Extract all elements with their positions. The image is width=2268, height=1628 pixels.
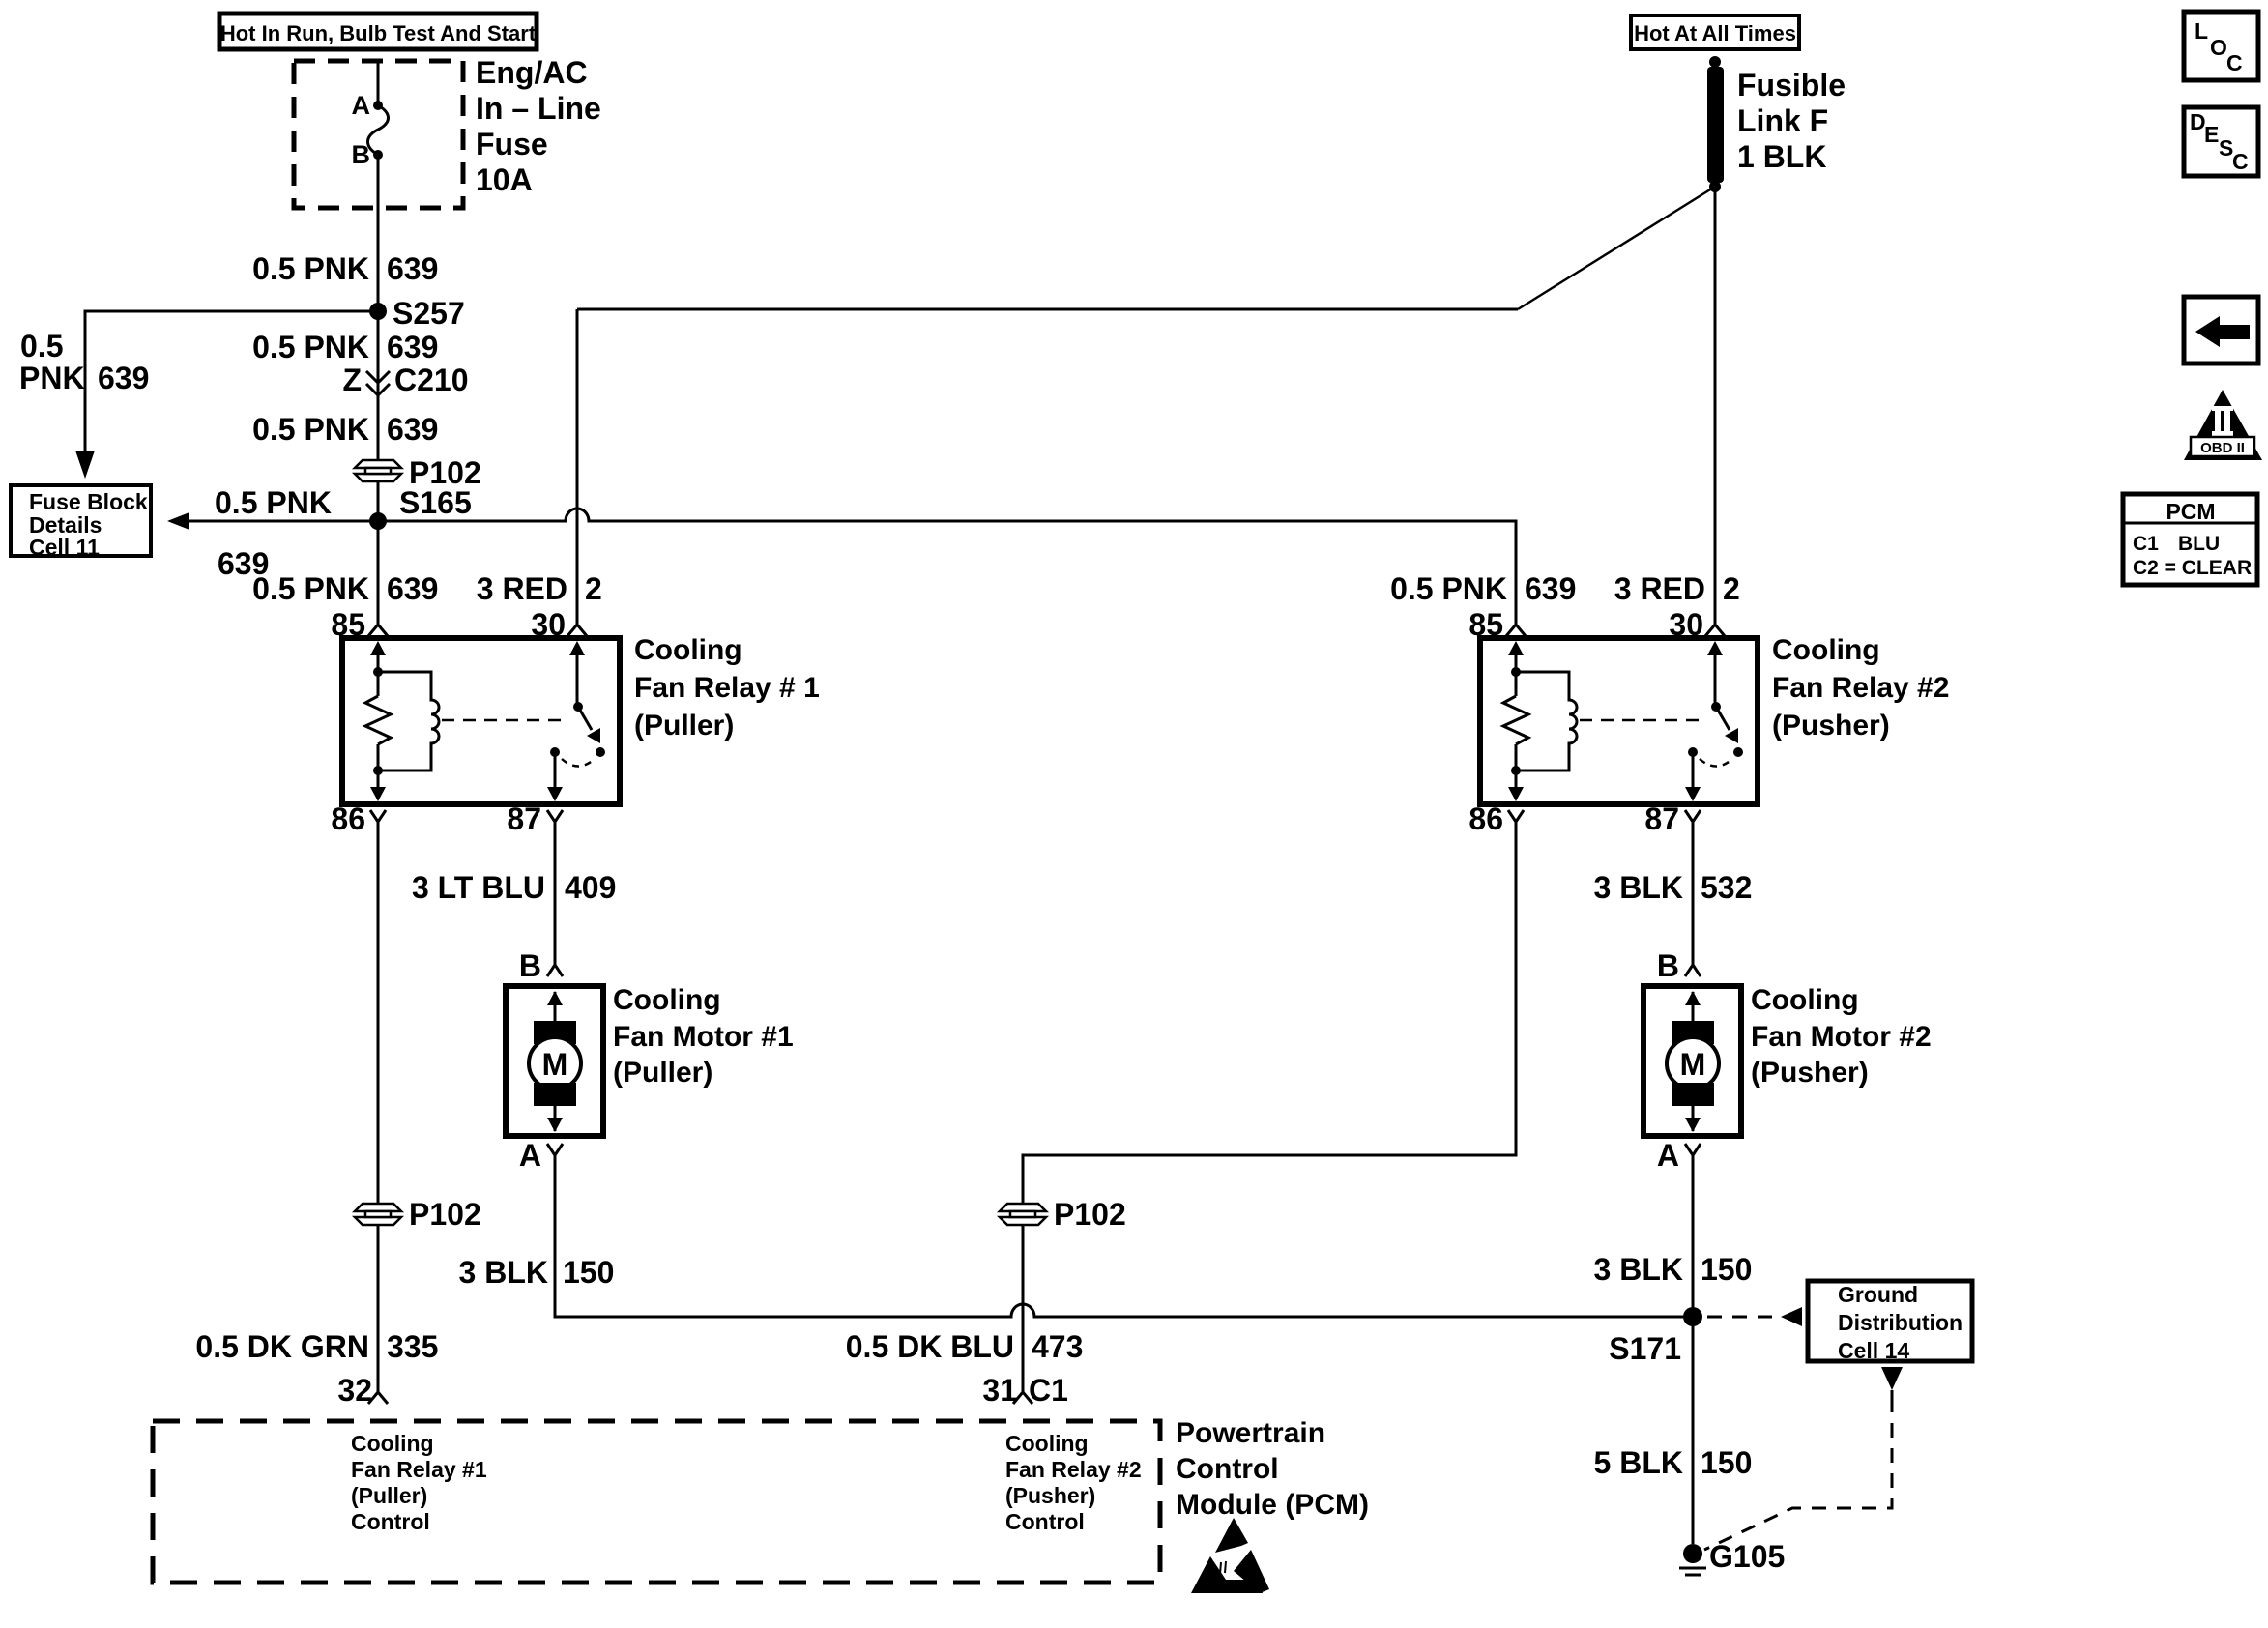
relay K1 switch blade <box>578 707 605 757</box>
svg-text:3 RED: 3 RED <box>1614 571 1705 606</box>
svg-text:B: B <box>519 948 541 983</box>
motor M1 Cooling Fan Motor #1 box <box>506 986 603 1136</box>
PCM pin 32 function label: Cooling Fan Relay #1 (Puller) Control <box>351 1431 487 1534</box>
arrow down to Fuse Block Details <box>75 451 95 479</box>
relay2 pin 30 terminal <box>1669 607 1725 642</box>
svg-text:Distribution: Distribution <box>1838 1310 1963 1335</box>
svg-text:10A: 10A <box>476 162 533 197</box>
svg-text:Control: Control <box>1176 1453 1279 1485</box>
relay K2 switch contact to pin 87 <box>1685 747 1701 801</box>
wire 3 BLK 532 from relay2 pin 87 to motor2 pin B <box>1692 822 1695 965</box>
wire diagonal from fusible link to red feed branch <box>1518 187 1715 309</box>
wire 0.5 DK GRN 335 from relay1 pin 86 to PCM pin 32 <box>377 822 380 1392</box>
fuse name label: Eng/AC In-Line Fuse 10A <box>476 55 601 197</box>
wire from S165 right toward relay 2 pin 85 with hop over red wire <box>378 509 1516 625</box>
legend LOC box <box>2184 12 2258 80</box>
svg-text:Cooling: Cooling <box>1005 1431 1089 1456</box>
fuse F1 dashed outline box <box>294 61 463 208</box>
relay K2 actuation dashed link <box>1580 719 1706 722</box>
svg-text:Ground: Ground <box>1838 1282 1918 1307</box>
svg-text:Fan Motor #2: Fan Motor #2 <box>1751 1021 1932 1053</box>
svg-text:87: 87 <box>507 801 541 836</box>
svg-text:Module (PCM): Module (PCM) <box>1176 1489 1369 1521</box>
motor1 pin B terminal <box>519 948 563 983</box>
power label box: Hot In Run, Bulb Test And Start <box>219 14 537 49</box>
relay1 pin 86 terminal <box>331 801 386 836</box>
svg-text:BLU: BLU <box>2178 533 2220 555</box>
svg-text:Cell 11: Cell 11 <box>29 535 100 560</box>
svg-text:87: 87 <box>1644 801 1679 836</box>
svg-text:E: E <box>2204 122 2219 147</box>
svg-text:5 BLK: 5 BLK <box>1594 1445 1683 1480</box>
motor M1 name label: Cooling Fan Motor #1 (Puller) <box>613 984 794 1089</box>
wire label 0.5 DK GRN 335 <box>195 1329 438 1364</box>
svg-text:3 BLK: 3 BLK <box>1594 1252 1683 1287</box>
motor M1 symbol <box>529 991 581 1132</box>
svg-text:M: M <box>1680 1047 1706 1082</box>
relay K2 resistor <box>1503 696 1528 744</box>
wire label 3 LT BLU 409 <box>412 870 616 905</box>
splice S171 <box>1609 1307 1702 1366</box>
fuse terminal B <box>352 140 384 169</box>
splice S257 <box>369 296 465 331</box>
svg-text:Cooling: Cooling <box>1772 634 1880 666</box>
svg-text:86: 86 <box>331 801 365 836</box>
relay2 pin 86 terminal <box>1468 801 1524 836</box>
svg-text:0.5 DK GRN: 0.5 DK GRN <box>195 1329 369 1364</box>
reference box: Fuse Block Details Cell 11 <box>11 485 151 560</box>
wire 5 BLK 150 from S171 to G105 <box>1692 1317 1695 1544</box>
wire 0.5 PNK 639 from fuse B to S257 <box>377 155 380 311</box>
grommet P102 (dk grn wire) <box>355 1197 481 1232</box>
wire label 3 BLK 150 (left) <box>459 1255 615 1290</box>
svg-text:Fuse: Fuse <box>476 127 548 161</box>
svg-text:B: B <box>1657 948 1679 983</box>
svg-text:Fusible: Fusible <box>1737 68 1846 102</box>
relay K1 actuation dashed link <box>442 719 568 722</box>
svg-text:B: B <box>352 140 371 169</box>
relay1 pin 30 terminal <box>531 607 587 642</box>
svg-text:Cooling: Cooling <box>1751 984 1859 1016</box>
wire 3 RED feed branch horizontal <box>577 308 1518 311</box>
svg-text:150: 150 <box>1701 1445 1752 1480</box>
svg-text:0.5: 0.5 <box>20 329 63 363</box>
svg-text:(Puller): (Puller) <box>613 1057 712 1089</box>
fusible link F terminal bottom <box>1709 181 1721 192</box>
svg-text:Hot In Run, Bulb Test And Star: Hot In Run, Bulb Test And Start <box>220 21 537 45</box>
svg-text:3 BLK: 3 BLK <box>1594 870 1683 905</box>
grommet P102 (pink wire) <box>355 455 481 490</box>
svg-text:0.5 PNK: 0.5 PNK <box>252 330 369 364</box>
relay K2 switch travel dashed arc <box>1700 759 1732 767</box>
svg-text:Fan Relay #2: Fan Relay #2 <box>1772 672 1949 704</box>
svg-text:G105: G105 <box>1709 1539 1785 1574</box>
wire label 0.5 PNK 639 (above S257) <box>252 251 438 286</box>
svg-text:31: 31 <box>982 1373 1017 1408</box>
svg-text:A: A <box>1657 1138 1679 1173</box>
svg-text:532: 532 <box>1701 870 1752 905</box>
svg-text:86: 86 <box>1468 801 1503 836</box>
relay1 pin 87 terminal <box>507 801 563 836</box>
svg-text:(Puller): (Puller) <box>634 710 734 741</box>
svg-text:Z: Z <box>342 363 362 397</box>
fusible link F terminal top <box>1709 56 1721 68</box>
svg-text:639: 639 <box>387 251 438 286</box>
svg-text:P102: P102 <box>1054 1197 1126 1232</box>
wire 3 LT BLU 409 from relay1 pin 87 to motor1 pin B <box>554 822 557 965</box>
svg-text:(Pusher): (Pusher) <box>1005 1483 1095 1508</box>
svg-text:C210: C210 <box>394 363 469 397</box>
relay K2 name label: Cooling Fan Relay #2 (Pusher) <box>1772 634 1949 741</box>
svg-text:PCM: PCM <box>2166 499 2215 524</box>
motor2 pin A terminal <box>1657 1138 1701 1173</box>
power label box: Hot At All Times <box>1631 15 1799 49</box>
wire 3 RED 2 from fusible link branch to relay1 pin 30 <box>576 309 579 625</box>
wire 3 BLK 150 from motor1 pin A to S171 with hop over dk blu wire <box>555 1155 1693 1317</box>
relay K1 coil <box>378 672 439 770</box>
legend back-arrow box <box>2184 297 2258 363</box>
svg-text:C: C <box>2226 50 2243 75</box>
svg-text:639: 639 <box>98 361 149 395</box>
svg-text:0.5 PNK: 0.5 PNK <box>252 571 369 606</box>
svg-text:P102: P102 <box>409 1197 481 1232</box>
svg-text:Eng/AC: Eng/AC <box>476 55 588 90</box>
svg-text:C1: C1 <box>2133 533 2159 555</box>
svg-text:S171: S171 <box>1609 1331 1681 1366</box>
wire label 0.5 PNK 639 (S165 branch) <box>215 485 332 581</box>
PCM pin 31 function label: Cooling Fan Relay #2 (Pusher) Control <box>1005 1431 1142 1534</box>
wire from S165 left to Fuse Block Details arrow <box>188 520 378 523</box>
svg-text:Cooling: Cooling <box>351 1431 434 1456</box>
PCM pin 32 terminal <box>337 1373 388 1408</box>
svg-text:Link F: Link F <box>1737 103 1828 138</box>
wire label 3 BLK 150 (right) <box>1594 1252 1753 1287</box>
wire label 5 BLK 150 <box>1594 1445 1753 1480</box>
legend DESC box <box>2184 107 2258 176</box>
svg-text:2: 2 <box>1723 571 1740 606</box>
reference box: Ground Distribution Cell 14 <box>1808 1281 1972 1363</box>
fuse element Eng/AC In-Line Fuse 10A <box>368 105 389 155</box>
wire branch from S257 to fuse block arrow <box>85 311 378 452</box>
svg-text:150: 150 <box>1701 1252 1752 1287</box>
grommet P102 (dk blu wire) <box>1000 1197 1126 1232</box>
svg-text:335: 335 <box>387 1329 438 1364</box>
svg-text:Hot At All Times: Hot At All Times <box>1634 21 1796 45</box>
svg-text:0.5 PNK: 0.5 PNK <box>1390 571 1507 606</box>
svg-text:O: O <box>2210 35 2227 60</box>
svg-text:L: L <box>2195 18 2208 44</box>
svg-text:0.5 PNK: 0.5 PNK <box>252 251 369 286</box>
wire label 0.5 PNK 639 (above relay1 pin 85) <box>252 571 438 606</box>
legend PCM connector table <box>2123 494 2257 585</box>
svg-text:0.5 PNK: 0.5 PNK <box>252 412 369 447</box>
relay1 pin 85 terminal <box>331 607 388 642</box>
wire label 3 RED 2 (relay1 pin 30) <box>477 571 602 606</box>
svg-text:C1: C1 <box>1029 1373 1068 1408</box>
svg-text:473: 473 <box>1032 1329 1083 1364</box>
svg-text:(Pusher): (Pusher) <box>1751 1057 1869 1089</box>
PCM name label: Powertrain Control Module (PCM) <box>1176 1417 1369 1521</box>
ESD sensitive device symbol <box>1191 1518 1269 1593</box>
wire 3 RED 2 from fusible link to relay2 pin 30 <box>1714 187 1717 625</box>
svg-text:Control: Control <box>1005 1509 1085 1534</box>
svg-text:Fuse Block: Fuse Block <box>29 489 148 514</box>
svg-text:639: 639 <box>1525 571 1576 606</box>
svg-text:0.5 PNK: 0.5 PNK <box>215 485 332 520</box>
svg-text:S257: S257 <box>393 296 465 331</box>
relay K1 switch common from pin 30 <box>569 641 585 712</box>
wire label 0.5 PNK 639 (above relay2 pin 85) <box>1390 571 1576 606</box>
relay K1 name label: Cooling Fan Relay # 1 (Puller) <box>634 634 820 741</box>
relay K1 Cooling Fan Relay #1 box <box>342 638 620 804</box>
relay K2 coil-side vertical with arrows <box>1508 641 1524 801</box>
relay K1 resistor <box>365 696 391 744</box>
svg-text:3 RED: 3 RED <box>477 571 567 606</box>
wire label 0.5 PNK 639 (between S257 and C210) <box>252 330 438 364</box>
relay2 pin 85 terminal <box>1468 607 1526 642</box>
svg-text:C: C <box>2232 149 2249 174</box>
svg-text:Fan Motor #1: Fan Motor #1 <box>613 1021 794 1053</box>
legend OBD II triangle <box>2184 390 2262 460</box>
wire 0.5 DK BLU 473 from relay2 pin 86 to PCM pin 31 <box>1023 822 1516 1392</box>
svg-text:639: 639 <box>387 412 438 447</box>
splice S165 <box>369 485 472 530</box>
wire label 0.5 PNK 639 (between C210 and P102) <box>252 412 438 447</box>
wire from Hot In Run feed to fuse terminal A <box>377 61 380 105</box>
svg-text:Fan Relay #2: Fan Relay #2 <box>1005 1457 1142 1482</box>
svg-text:1 BLK: 1 BLK <box>1737 139 1826 174</box>
svg-text:M: M <box>542 1047 568 1082</box>
wire label 3 BLK 532 <box>1594 870 1753 905</box>
wire label 0.5 DK BLU 473 <box>846 1329 1084 1364</box>
svg-text:A: A <box>352 91 371 120</box>
svg-text:C2 = CLEAR: C2 = CLEAR <box>2133 557 2252 579</box>
svg-text:2: 2 <box>585 571 602 606</box>
svg-text:3 BLK: 3 BLK <box>459 1255 548 1290</box>
svg-text:Control: Control <box>351 1509 430 1534</box>
relay K2 Cooling Fan Relay #2 box <box>1480 638 1758 804</box>
wire 3 BLK 150 from motor2 pin A to S171 <box>1692 1155 1695 1317</box>
svg-text:639: 639 <box>387 330 438 364</box>
svg-text:Fan Relay # 1: Fan Relay # 1 <box>634 672 820 704</box>
dashed reference wire from Ground Distribution to G105 <box>1704 1367 1903 1550</box>
svg-text:Cooling: Cooling <box>634 634 742 666</box>
relay K2 switch common from pin 30 <box>1707 641 1723 712</box>
svg-text:3 LT BLU: 3 LT BLU <box>412 870 545 905</box>
motor2 pin B terminal <box>1657 948 1701 983</box>
relay K2 switch blade <box>1716 707 1743 757</box>
svg-text:In – Line: In – Line <box>476 91 601 126</box>
fusible link name label: Fusible Link F 1 BLK <box>1737 68 1846 174</box>
svg-text:Fan Relay #1: Fan Relay #1 <box>351 1457 487 1482</box>
svg-text:Powertrain: Powertrain <box>1176 1417 1325 1449</box>
svg-text:639: 639 <box>387 571 438 606</box>
motor1 pin A terminal <box>519 1138 563 1173</box>
svg-text:409: 409 <box>565 870 616 905</box>
connector C210 pin Z <box>342 363 468 397</box>
dashed reference wire from S171 to Ground Distribution <box>1707 1307 1802 1326</box>
svg-text:32: 32 <box>337 1373 372 1408</box>
svg-text:A: A <box>519 1138 541 1173</box>
relay K1 coil-side vertical with arrows <box>370 641 386 801</box>
wire label 3 RED 2 (relay2 pin 30) <box>1614 571 1740 606</box>
motor M2 Cooling Fan Motor #2 box <box>1643 986 1741 1136</box>
svg-text:Cell 14: Cell 14 <box>1838 1338 1909 1363</box>
svg-text:(Puller): (Puller) <box>351 1483 427 1508</box>
svg-text:PNK: PNK <box>19 361 85 395</box>
svg-text:Cooling: Cooling <box>613 984 721 1016</box>
ground G105 <box>1679 1539 1785 1575</box>
relay K2 coil <box>1516 672 1577 770</box>
motor M2 symbol <box>1667 991 1719 1132</box>
svg-text:(Pusher): (Pusher) <box>1772 710 1890 741</box>
PCM pin 31 C1 terminal <box>982 1373 1068 1408</box>
relay K1 switch contact to pin 87 <box>547 747 563 801</box>
PCM U1 dashed box <box>153 1421 1160 1583</box>
motor M2 name label: Cooling Fan Motor #2 (Pusher) <box>1751 984 1932 1089</box>
wire label 0.5 PNK 639 (left branch) <box>19 329 149 395</box>
fuse terminal A <box>352 91 384 120</box>
wire 0.5 PNK 639 from S257 down through C210 P102 to S165 <box>377 311 380 625</box>
arrow left into Fuse Block Details <box>167 512 189 530</box>
svg-text:OBD II: OBD II <box>2200 440 2245 456</box>
svg-text:S165: S165 <box>399 485 472 520</box>
svg-text:150: 150 <box>563 1255 614 1290</box>
svg-text:0.5 DK BLU: 0.5 DK BLU <box>846 1329 1014 1364</box>
fusible link F 1 BLK <box>1707 67 1724 183</box>
relay K1 switch travel dashed arc <box>562 759 595 767</box>
relay2 pin 87 terminal <box>1644 801 1701 836</box>
